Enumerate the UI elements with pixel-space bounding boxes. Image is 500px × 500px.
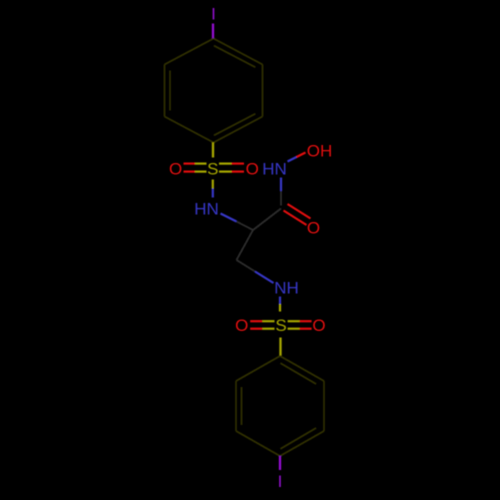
ring2 edge UL-LL (double outer) — [235, 381, 237, 431]
ring2 edge LR-B (double outer) — [280, 431, 324, 456]
ring2 edge T-UR inner line — [280, 363, 316, 384]
double bond C3=O3 line a — [284, 211, 307, 226]
ring1 edge UL-LL inner line — [169, 71, 171, 111]
ring1 edge T-UL — [165, 39, 214, 65]
bond S2 to ring2 T — [279, 338, 281, 356]
svg-text:OH: OH — [307, 142, 333, 161]
ring2 edge LL-B — [236, 431, 280, 456]
double bond S2=O6 lower line — [288, 328, 312, 330]
bond C5-N3 — [237, 260, 274, 283]
double bond C3=O3 line b — [288, 204, 311, 219]
svg-text:O: O — [246, 160, 259, 179]
bond ring1 B to S1 — [212, 143, 214, 158]
ring2 edge UR-LR — [323, 381, 325, 431]
ring1 edge UL-LL (double outer) — [164, 65, 166, 117]
svg-text:I: I — [211, 5, 216, 24]
bond C2-C5 (CH2) — [237, 230, 254, 260]
svg-text:HN: HN — [262, 160, 287, 179]
double bond S1=O2 lower line — [219, 171, 244, 173]
ring1 edge T-UR inner line — [214, 46, 256, 68]
bond C2-C3 (to carbonyl) — [253, 209, 281, 231]
ring2 edge UL-LL inner line — [241, 387, 243, 425]
bond C3-N2 — [280, 178, 282, 206]
bond ring2 B to I2 — [279, 456, 281, 470]
svg-text:O: O — [312, 316, 325, 335]
ring1 edge UR-LR — [262, 65, 264, 117]
svg-text:O: O — [169, 160, 182, 179]
svg-text:O: O — [307, 219, 320, 238]
ring1 edge T-UR (double outer) — [214, 39, 263, 65]
bond N1-C2 — [221, 214, 254, 231]
ring2 edge LR-B inner line — [280, 428, 316, 449]
svg-text:I: I — [278, 472, 283, 491]
double bond S2=O5 lower line — [250, 328, 274, 330]
bond N2-O4 — [288, 153, 306, 162]
benzene ring1 (top, carbon bonds, very dim) — [165, 39, 263, 143]
svg-text:S: S — [207, 160, 218, 179]
benzene ring2 (bottom, carbon bonds, very dim) — [236, 356, 324, 456]
bond N3-S2 — [279, 297, 281, 312]
svg-text:HN: HN — [194, 200, 219, 219]
svg-text:NH: NH — [274, 279, 299, 298]
bond I1 to ring1 C4 — [212, 24, 214, 39]
double bond S1=O1 lower line — [184, 171, 207, 173]
bond S1-N1 — [212, 180, 214, 198]
double bond S2=O5 upper line — [250, 320, 274, 322]
double bond S1=O2 upper line — [219, 163, 244, 165]
ring1 edge LR-B inner line — [214, 114, 256, 136]
ring2 edge T-UR (double outer) — [280, 356, 324, 381]
double bond S1=O1 upper line — [184, 163, 207, 165]
double bond S2=O6 upper line — [288, 320, 312, 322]
svg-text:O: O — [235, 316, 248, 335]
ring2 edge T-UL — [236, 356, 280, 381]
ring1 edge LR-B (double outer) — [214, 117, 263, 143]
svg-text:S: S — [275, 316, 286, 335]
ring1 edge LL-B — [165, 117, 214, 143]
